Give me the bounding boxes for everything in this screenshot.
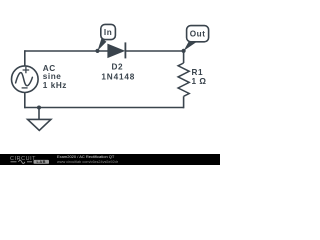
- wire top-right horizontal (diode cathode to Out node): [125, 50, 183, 52]
- wire right vertical lower (R1 to bottom wire): [183, 96, 185, 108]
- diode D2 triangle (anode): [108, 44, 124, 57]
- wire left vertical lower (source bottom lead): [24, 93, 26, 109]
- wire right vertical upper (Out node to R1): [183, 51, 185, 63]
- resistor R1 zigzag: [178, 63, 189, 96]
- node Out junction dot: [182, 49, 186, 53]
- wire top-left horizontal (node In to source): [25, 50, 108, 52]
- flag In pointer tail: [98, 38, 107, 51]
- svg-text:Exam2020 / AC Rectification QT: Exam2020 / AC Rectification QT: [57, 154, 115, 159]
- footer caption line 2 (url): [57, 160, 119, 164]
- AC source label "sine": [43, 72, 62, 81]
- AC source V1 circle: [11, 66, 38, 93]
- svg-text:1 kHz: 1 kHz: [43, 81, 67, 90]
- footer caption line 1: [57, 154, 115, 159]
- wire left vertical upper (source top lead): [24, 50, 26, 66]
- wire bottom horizontal: [25, 107, 184, 109]
- resistor value label "1 Ω": [192, 77, 207, 86]
- flag Out box: [187, 26, 209, 42]
- AC source label "AC": [43, 64, 56, 73]
- diode label "D2": [112, 63, 124, 72]
- footer CircuitLab logo "CIRCUIT": [10, 156, 36, 162]
- ground stem wire: [38, 108, 40, 120]
- svg-text:1N4148: 1N4148: [101, 72, 135, 81]
- diode value label "1N4148": [101, 72, 135, 81]
- AC source minus sign: [22, 87, 28, 89]
- svg-text:In: In: [104, 28, 112, 37]
- AC source plus sign: [23, 67, 30, 74]
- footer watermark bar: [0, 154, 220, 165]
- svg-text:Out: Out: [190, 29, 206, 38]
- AC source sine waveform glyph: [16, 73, 33, 86]
- svg-text:1 Ω: 1 Ω: [192, 77, 207, 86]
- flag In box: [101, 24, 116, 39]
- flag Out text: [190, 29, 206, 38]
- node In junction dot: [95, 49, 99, 53]
- ground junction dot: [37, 106, 41, 110]
- svg-text:D2: D2: [112, 63, 124, 72]
- footer CircuitLab logo "LAB" with waveform: [11, 159, 50, 164]
- flag In text: [104, 28, 112, 37]
- svg-text:LAB: LAB: [36, 159, 46, 164]
- svg-text:CIRCUIT: CIRCUIT: [10, 156, 36, 162]
- svg-text:sine: sine: [43, 72, 62, 81]
- svg-text:www circuitlab com/c6xs24vs5x9: www circuitlab com/c6xs24vs5x92dr: [57, 160, 119, 164]
- diode D2 cathode bar: [124, 42, 126, 58]
- ground symbol triangle: [28, 119, 51, 130]
- svg-text:R1: R1: [192, 68, 204, 77]
- flag Out pointer tail: [184, 40, 196, 51]
- AC source value label "1 kHz": [43, 81, 67, 90]
- resistor label "R1": [192, 68, 204, 77]
